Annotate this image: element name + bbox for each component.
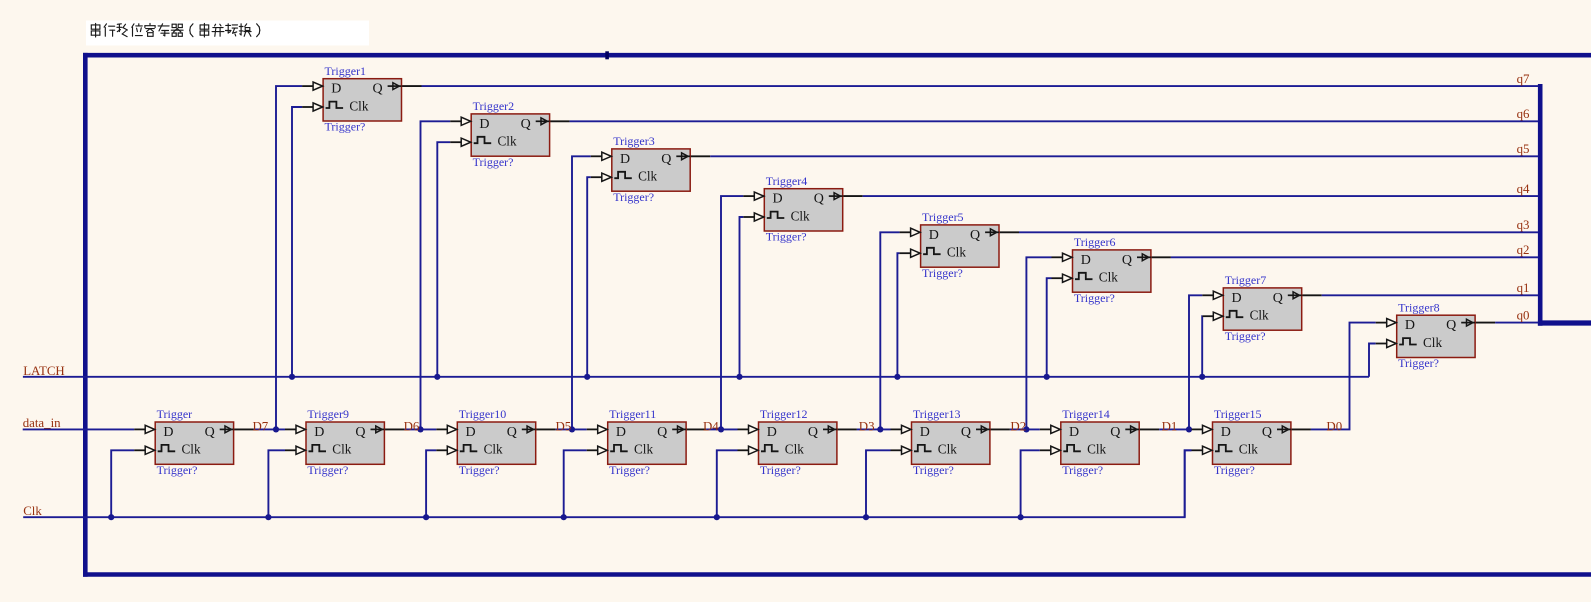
junction D6	[417, 426, 423, 432]
svg-text:Q: Q	[355, 425, 365, 440]
svg-text:Clk: Clk	[349, 98, 368, 113]
junction Clk-Trigger9	[265, 514, 271, 520]
svg-text:D: D	[1221, 425, 1231, 440]
junction D1	[1186, 426, 1192, 432]
wire net D1 segment	[1159, 428, 1191, 430]
svg-text:Clk: Clk	[484, 442, 503, 457]
svg-text:D1: D1	[1162, 419, 1178, 433]
junction D4	[718, 426, 724, 432]
svg-text:Trigger5: Trigger5	[922, 210, 964, 224]
wire net q1 to bus	[1322, 294, 1539, 296]
wire net q3 to bus	[1019, 231, 1538, 233]
wire D4 up to Trigger4.D	[721, 196, 743, 429]
output bus horizontal to edge	[1538, 320, 1591, 325]
svg-text:Clk: Clk	[1087, 442, 1106, 457]
svg-text:D: D	[1405, 318, 1415, 333]
junction D3	[877, 426, 883, 432]
flip-flop Trigger	[134, 407, 233, 477]
svg-text:D: D	[314, 425, 324, 440]
wire Trigger14 Q output stub	[1139, 428, 1159, 430]
junction Clk-Trigger	[108, 514, 114, 520]
wire net D7 segment	[254, 428, 285, 430]
flip-flop Trigger3	[591, 134, 690, 204]
flip-flop Trigger15	[1192, 407, 1291, 477]
junction LATCH-Trigger6	[1044, 374, 1050, 380]
svg-text:Clk: Clk	[785, 442, 804, 457]
flip-flop Trigger2	[450, 99, 549, 169]
flip-flop Trigger7	[1202, 273, 1301, 343]
wire Trigger3 Q output stub	[690, 155, 710, 157]
svg-text:Trigger?: Trigger?	[613, 190, 654, 204]
svg-text:Trigger2: Trigger2	[473, 99, 515, 113]
svg-text:Clk: Clk	[791, 208, 810, 223]
flip-flop Trigger14	[1040, 407, 1139, 477]
wire Trigger5 Q output stub	[999, 231, 1019, 233]
wire Trigger2 Q output stub	[550, 120, 570, 122]
junction Clk-Trigger13	[863, 514, 869, 520]
svg-text:Trigger15: Trigger15	[1214, 407, 1262, 421]
wire LATCH up to Trigger2.Clk	[437, 142, 450, 377]
junction D7	[273, 426, 279, 432]
wire D3 up to Trigger5.D	[880, 232, 899, 429]
svg-text:Clk: Clk	[938, 442, 957, 457]
wire Trigger4 Q output stub	[843, 195, 863, 197]
svg-text:Q: Q	[814, 192, 824, 207]
svg-text:Q: Q	[1273, 291, 1283, 306]
svg-text:Q: Q	[205, 425, 215, 440]
svg-text:Q: Q	[1110, 425, 1120, 440]
svg-text:Trigger?: Trigger?	[1225, 329, 1266, 343]
junction LATCH-Trigger7	[1199, 374, 1205, 380]
wire Clk up to Trigger14.Clk	[1021, 450, 1040, 517]
wire net q6 to bus	[570, 120, 1539, 122]
flip-flop Trigger8	[1376, 300, 1475, 370]
flip-flop Trigger11	[587, 407, 686, 477]
frame border bottom	[83, 572, 1591, 577]
svg-text:D5: D5	[556, 419, 572, 433]
svg-text:Clk: Clk	[182, 442, 201, 457]
svg-text:q0: q0	[1517, 308, 1530, 322]
wire net D2 segment	[1010, 428, 1040, 430]
svg-text:D: D	[1081, 253, 1091, 268]
junction LATCH-Trigger4	[736, 374, 742, 380]
svg-text:D0: D0	[1326, 419, 1342, 433]
wire Clk up to Trigger9.Clk	[268, 450, 285, 517]
junction Clk-Trigger14	[1018, 514, 1024, 520]
svg-text:Clk: Clk	[947, 245, 966, 260]
flip-flop Trigger12	[738, 407, 837, 477]
svg-text:Trigger11: Trigger11	[609, 407, 656, 421]
svg-text:D: D	[331, 82, 341, 97]
junction Clk-Trigger12	[714, 514, 720, 520]
flip-flop Trigger6	[1052, 235, 1151, 305]
flip-flop Trigger5	[900, 210, 999, 280]
wire Clk up to Trigger12.Clk	[717, 450, 738, 517]
svg-text:D: D	[479, 117, 489, 132]
svg-text:D4: D4	[703, 419, 719, 433]
svg-text:Trigger12: Trigger12	[760, 407, 808, 421]
net data_in wire	[23, 428, 135, 430]
wire D6 up to Trigger2.D	[421, 121, 451, 429]
wire Trigger11 Q output stub	[686, 428, 706, 430]
svg-text:Trigger?: Trigger?	[1398, 356, 1439, 370]
svg-text:Q: Q	[808, 425, 818, 440]
svg-text:Q: Q	[507, 425, 517, 440]
junction LATCH-Trigger1	[289, 374, 295, 380]
wire net D3 segment	[857, 428, 891, 430]
wire net q0 to bus	[1495, 322, 1538, 324]
svg-text:Trigger?: Trigger?	[325, 120, 366, 134]
wire Trigger10 Q output stub	[536, 428, 556, 430]
wire net D0 segment to Trigger8	[1311, 323, 1376, 430]
svg-text:q6: q6	[1517, 107, 1530, 121]
svg-text:Trigger: Trigger	[157, 407, 193, 421]
svg-text:Trigger?: Trigger?	[913, 463, 954, 477]
svg-text:Q: Q	[970, 228, 980, 243]
svg-text:D3: D3	[859, 419, 875, 433]
wire D2 up to Trigger6.D	[1026, 257, 1051, 429]
wire LATCH up to Trigger5.Clk	[897, 253, 899, 377]
wire Trigger Q output stub	[234, 428, 254, 430]
svg-text:Q: Q	[373, 82, 383, 97]
svg-text:Trigger?: Trigger?	[1074, 291, 1115, 305]
junction LATCH-Trigger2	[434, 374, 440, 380]
output bus vertical	[1538, 84, 1543, 326]
svg-text:Q: Q	[961, 425, 971, 440]
wire net q7 to bus	[422, 85, 1539, 87]
svg-text:D: D	[767, 425, 777, 440]
svg-text:Q: Q	[1122, 253, 1132, 268]
svg-text:Trigger?: Trigger?	[459, 463, 500, 477]
wire Trigger8 Q output stub	[1475, 322, 1495, 324]
flip-flop Trigger10	[436, 407, 535, 477]
svg-text:Trigger?: Trigger?	[157, 463, 198, 477]
junction LATCH-Trigger3	[584, 374, 590, 380]
svg-text:Q: Q	[661, 152, 671, 167]
svg-text:Q: Q	[521, 117, 531, 132]
wire net D6 segment	[404, 428, 436, 430]
svg-text:D: D	[466, 425, 476, 440]
svg-text:q4: q4	[1517, 182, 1530, 196]
svg-text:data_in: data_in	[23, 416, 61, 430]
wire Trigger1 Q output stub	[402, 85, 422, 87]
net Clk wire	[23, 450, 1191, 517]
wire D1 up to Trigger7.D	[1189, 295, 1202, 429]
wire Trigger13 Q output stub	[990, 428, 1010, 430]
svg-text:D: D	[620, 152, 630, 167]
svg-text:Trigger?: Trigger?	[922, 266, 963, 280]
wire Clk up to Trigger10.Clk	[426, 450, 436, 517]
wire LATCH up to Trigger7.Clk	[1201, 316, 1203, 377]
svg-text:q2: q2	[1517, 243, 1530, 257]
frame anchor notch	[605, 51, 609, 59]
svg-text:Trigger13: Trigger13	[913, 407, 961, 421]
wire Clk up to Trigger.Clk	[111, 450, 134, 517]
svg-text:Q: Q	[1446, 318, 1456, 333]
wire LATCH up to Trigger1.Clk	[292, 107, 302, 377]
svg-text:Trigger4: Trigger4	[766, 174, 808, 188]
wire Trigger6 Q output stub	[1151, 256, 1171, 258]
wire LATCH up to Trigger3.Clk	[587, 177, 591, 377]
wire Trigger7 Q output stub	[1302, 294, 1322, 296]
svg-text:D2: D2	[1010, 419, 1026, 433]
svg-text:Clk: Clk	[23, 504, 42, 518]
svg-text:q3: q3	[1517, 218, 1530, 232]
wire Clk up to Trigger11.Clk	[564, 450, 587, 517]
wire net D4 segment	[706, 428, 737, 430]
svg-text:D: D	[929, 228, 939, 243]
wire D5 up to Trigger3.D	[572, 156, 591, 429]
svg-text:D: D	[163, 425, 173, 440]
svg-text:Trigger?: Trigger?	[1214, 463, 1255, 477]
svg-text:q1: q1	[1517, 281, 1530, 295]
svg-text:Clk: Clk	[498, 134, 517, 149]
frame border left	[83, 53, 88, 577]
wire LATCH up to Trigger8.Clk	[1369, 344, 1376, 377]
svg-text:q7: q7	[1517, 72, 1530, 86]
junction LATCH-Trigger5	[894, 374, 900, 380]
svg-text:Trigger?: Trigger?	[307, 463, 348, 477]
svg-text:Trigger9: Trigger9	[307, 407, 349, 421]
flip-flop Trigger9	[285, 407, 384, 477]
svg-text:D: D	[1232, 291, 1242, 306]
svg-text:D: D	[920, 425, 930, 440]
svg-text:D: D	[1069, 425, 1079, 440]
title strip background	[86, 21, 369, 46]
svg-text:Trigger?: Trigger?	[766, 230, 807, 244]
svg-text:Clk: Clk	[1423, 335, 1442, 350]
svg-text:Trigger?: Trigger?	[1062, 463, 1103, 477]
svg-text:D7: D7	[253, 419, 269, 433]
flip-flop Trigger4	[743, 174, 842, 244]
junction D2	[1023, 426, 1029, 432]
svg-text:D6: D6	[404, 419, 420, 433]
svg-text:Trigger?: Trigger?	[760, 463, 801, 477]
wire net q2 to bus	[1171, 256, 1538, 258]
svg-text:Trigger?: Trigger?	[473, 155, 514, 169]
wire net q5 to bus	[710, 155, 1538, 157]
wire LATCH up to Trigger6.Clk	[1047, 278, 1052, 377]
svg-text:Clk: Clk	[638, 169, 657, 184]
svg-text:Trigger8: Trigger8	[1398, 300, 1440, 314]
net LATCH wire	[23, 376, 1369, 378]
junction D5	[569, 426, 575, 432]
frame border top	[83, 53, 1591, 58]
svg-text:q5: q5	[1517, 142, 1530, 156]
svg-text:Clk: Clk	[1250, 308, 1269, 323]
svg-text:Trigger10: Trigger10	[459, 407, 507, 421]
wire net q4 to bus	[863, 195, 1538, 197]
wire Trigger12 Q output stub	[837, 428, 857, 430]
svg-text:Clk: Clk	[1239, 442, 1258, 457]
flip-flop Trigger1	[302, 64, 401, 134]
svg-text:LATCH: LATCH	[23, 364, 65, 378]
svg-text:Trigger6: Trigger6	[1074, 235, 1116, 249]
svg-text:D: D	[616, 425, 626, 440]
svg-text:Clk: Clk	[332, 442, 351, 457]
wire net D5 segment	[556, 428, 587, 430]
svg-text:Q: Q	[1262, 425, 1272, 440]
wire Clk up to Trigger13.Clk	[866, 450, 891, 517]
svg-text:Trigger1: Trigger1	[325, 64, 367, 78]
svg-text:Trigger?: Trigger?	[609, 463, 650, 477]
wire Clk up to Trigger15.Clk	[1185, 450, 1192, 517]
junction Clk-Trigger10	[423, 514, 429, 520]
wire LATCH up to Trigger4.Clk	[740, 217, 744, 377]
svg-text:D: D	[773, 192, 783, 207]
wire D7 up to Trigger1.D	[276, 86, 302, 429]
wire Trigger15 Q output stub	[1291, 428, 1311, 430]
svg-text:Trigger14: Trigger14	[1062, 407, 1110, 421]
svg-text:Trigger3: Trigger3	[613, 134, 655, 148]
flip-flop Trigger13	[891, 407, 990, 477]
svg-text:Clk: Clk	[1099, 270, 1118, 285]
title 串行移位寄存器（串并转换）	[91, 24, 259, 38]
wire Trigger9 Q output stub	[384, 428, 404, 430]
svg-text:Clk: Clk	[634, 442, 653, 457]
svg-text:Trigger7: Trigger7	[1225, 273, 1267, 287]
svg-text:Q: Q	[657, 425, 667, 440]
junction Clk-Trigger11	[561, 514, 567, 520]
